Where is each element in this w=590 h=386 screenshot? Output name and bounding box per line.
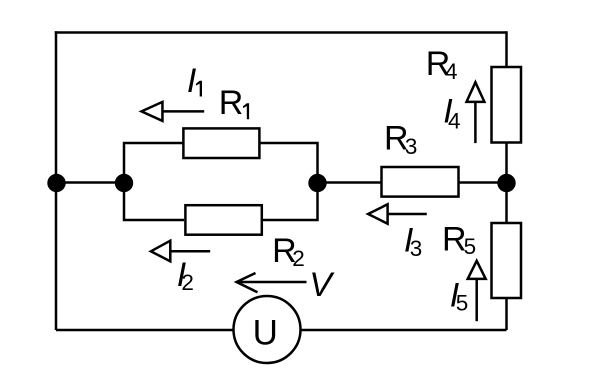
svg-text:4: 4 bbox=[445, 59, 458, 84]
svg-text:3: 3 bbox=[405, 134, 418, 159]
label R3 bbox=[384, 120, 417, 159]
svg-text:4: 4 bbox=[448, 108, 461, 133]
voltage arrow V bbox=[237, 273, 307, 292]
svg-text:5: 5 bbox=[464, 234, 477, 259]
label R2 bbox=[272, 232, 305, 271]
label I5 bbox=[450, 277, 469, 316]
label I2 bbox=[177, 256, 194, 295]
node C bbox=[308, 174, 326, 192]
wire bottom left bbox=[56, 329, 233, 332]
wire right lower (R5 to corner) bbox=[505, 299, 508, 330]
svg-text:I: I bbox=[187, 62, 197, 100]
wire bottom right bbox=[302, 329, 507, 332]
label I4 bbox=[443, 93, 460, 134]
resistor R2 bbox=[185, 205, 261, 235]
svg-text:5: 5 bbox=[456, 291, 469, 316]
label R1 bbox=[219, 84, 249, 122]
resistor R5 bbox=[492, 223, 522, 298]
current arrow I4 bbox=[467, 82, 485, 143]
voltage source U1 bbox=[234, 296, 301, 363]
wire R2 branch bbox=[124, 183, 184, 221]
node B bbox=[115, 174, 133, 192]
resistor R4 bbox=[492, 67, 522, 143]
wire right mid (R4 to R5) bbox=[505, 144, 508, 223]
svg-text:2: 2 bbox=[292, 246, 305, 271]
current arrow I1 bbox=[142, 102, 205, 121]
label I1 bbox=[187, 62, 202, 100]
svg-text:3: 3 bbox=[410, 236, 423, 261]
resistor R3 bbox=[382, 167, 459, 197]
resistor R1 bbox=[183, 128, 259, 158]
wire node C to R3 bbox=[318, 181, 381, 184]
label R5 bbox=[442, 220, 476, 259]
wire top bbox=[55, 31, 507, 34]
svg-text:V: V bbox=[309, 266, 335, 304]
wire right upper (corner to R4) bbox=[505, 31, 508, 66]
svg-text:R: R bbox=[219, 84, 244, 122]
wire R1 to node C bbox=[261, 143, 318, 183]
wire left bbox=[55, 31, 58, 330]
current arrow I2 bbox=[151, 241, 210, 262]
current arrow I3 bbox=[368, 204, 427, 223]
node D bbox=[497, 174, 515, 192]
label I3 bbox=[404, 222, 422, 262]
node A bbox=[47, 174, 65, 192]
svg-text:U: U bbox=[253, 314, 278, 353]
label R4 bbox=[426, 45, 458, 84]
wire R3 to node D bbox=[459, 181, 507, 184]
current arrow I5 bbox=[468, 261, 486, 321]
wire R2 to node C bbox=[263, 183, 318, 221]
wire R1 branch bbox=[124, 143, 183, 183]
wire node A to node B bbox=[56, 181, 124, 184]
svg-text:2: 2 bbox=[181, 270, 194, 295]
